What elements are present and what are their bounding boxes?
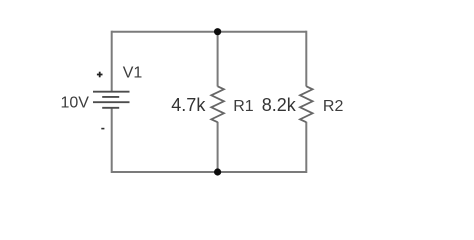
wire: right vertical upper (top corner to R2) [305,31,307,87]
battery V1 (10V source) [93,92,130,108]
wire: top horizontal (node A) [112,31,307,33]
wire: left vertical upper (top corner to battery +) [111,31,113,92]
svg-text:8.2k: 8.2k [262,95,297,115]
wire: bottom horizontal (node B) [112,171,307,173]
wire: right vertical lower (R2 to bottom corner) [305,122,307,173]
battery minus sign [101,128,104,130]
battery plate short bottom [102,107,119,109]
battery plate long top [93,91,130,93]
battery plus sign [97,72,103,78]
resistor R1 (4.7k) zigzag [211,86,224,122]
wire: R1 bottom stub [217,122,219,172]
svg-text:4.7k: 4.7k [171,95,206,115]
resistor R2 (8.2k) zigzag [300,86,313,122]
battery plate long lower [93,101,130,103]
svg-text:V1: V1 [123,64,143,81]
junction dot top (node A) [214,28,221,35]
junction dot bottom (node B) [214,168,221,175]
svg-text:10V: 10V [61,94,90,111]
svg-text:R2: R2 [323,98,344,115]
wire: left vertical lower (battery - to bottom corner) [111,108,113,173]
battery plate short upper [102,96,119,98]
svg-text:R1: R1 [233,98,254,115]
wire: R1 top stub [217,32,219,87]
